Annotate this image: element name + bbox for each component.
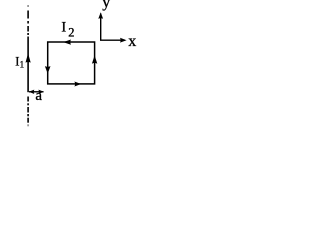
svg-text:a: a bbox=[35, 88, 42, 104]
svg-text:y: y bbox=[102, 0, 110, 11]
svg-text:x: x bbox=[128, 33, 136, 50]
svg-text:2: 2 bbox=[68, 26, 74, 40]
svg-text:I: I bbox=[61, 20, 66, 36]
svg-text:1: 1 bbox=[20, 60, 25, 70]
